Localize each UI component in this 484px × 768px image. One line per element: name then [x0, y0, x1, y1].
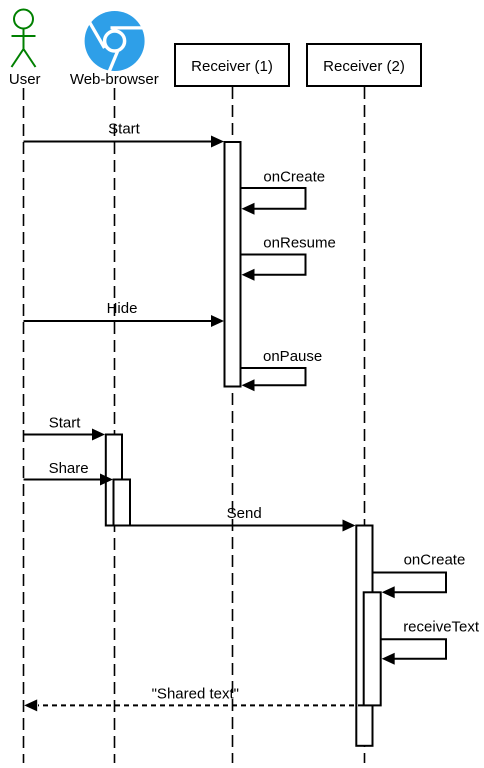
svg-text:Receiver (1): Receiver (1)	[191, 58, 273, 75]
svg-text:Send: Send	[227, 505, 262, 522]
svg-text:onCreate: onCreate	[404, 552, 466, 569]
svg-text:onResume: onResume	[263, 235, 336, 252]
svg-text:"Shared text": "Shared text"	[152, 686, 239, 703]
svg-text:User: User	[9, 71, 41, 88]
svg-text:Hide: Hide	[107, 300, 138, 317]
svg-text:Start: Start	[49, 415, 82, 432]
svg-text:Start: Start	[108, 121, 141, 138]
svg-text:onCreate: onCreate	[263, 169, 325, 186]
svg-text:onPause: onPause	[263, 348, 322, 365]
svg-text:Web-browser: Web-browser	[70, 71, 159, 88]
svg-text:receiveText: receiveText	[403, 619, 480, 636]
svg-text:Share: Share	[49, 460, 89, 477]
svg-text:Receiver (2): Receiver (2)	[323, 58, 405, 75]
